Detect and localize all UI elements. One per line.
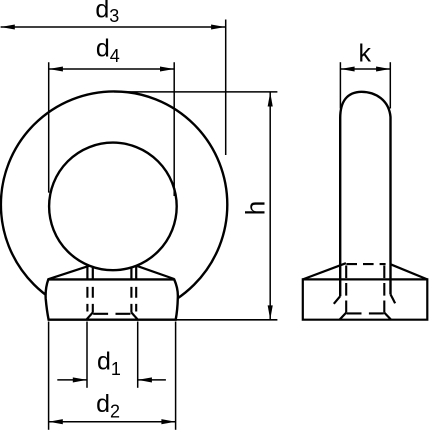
h arrow top <box>268 92 273 106</box>
boss vertical outer-left <box>86 265 88 280</box>
svg-text:k: k <box>359 39 372 67</box>
side view hidden horizontal top <box>346 263 385 265</box>
d4 arrow left <box>49 66 63 71</box>
dimension d3 line <box>1 26 226 28</box>
dimension h line <box>269 92 271 319</box>
boss vertical inner-left <box>92 266 94 279</box>
d4 extension line right <box>173 62 175 196</box>
thread chamfer left <box>86 313 93 320</box>
dimension k line <box>340 68 390 70</box>
h arrow bottom <box>268 305 273 319</box>
side view thread chamfer left <box>340 313 347 320</box>
d1 extension line left <box>86 322 88 388</box>
base body (front view, white fill over ring) <box>46 279 178 319</box>
d2 arrow left <box>49 419 63 424</box>
dimension d1 tail right <box>138 379 166 381</box>
side view hidden thread line right <box>383 266 385 313</box>
side view hidden thread line left <box>345 266 347 313</box>
side view flare right <box>391 294 396 303</box>
d1 arrow left (outside pointing right) <box>73 377 87 382</box>
hidden thread line outer-right <box>135 287 137 312</box>
k arrow right <box>376 66 390 71</box>
svg-text:h: h <box>241 201 271 216</box>
d1 extension line right <box>137 322 139 388</box>
cone silhouette diagonal left <box>48 266 89 279</box>
dimension d1 tail left <box>57 379 87 381</box>
side view cone slope right <box>391 264 428 279</box>
side view base rectangle <box>303 279 428 319</box>
d3 extension line <box>225 20 227 156</box>
k arrow left <box>340 66 354 71</box>
hidden hole bottom line <box>93 313 131 315</box>
k extension line left <box>339 62 341 108</box>
hidden thread line inner-right <box>130 287 132 313</box>
hidden thread line outer-left <box>86 287 88 312</box>
top tangent line <box>114 91 277 93</box>
side view thread chamfer right <box>384 313 391 320</box>
side view cone slope left <box>303 263 346 279</box>
side view flare left <box>334 296 340 304</box>
baseline under base extending right <box>176 319 278 321</box>
d4 arrow right <box>160 66 174 71</box>
boss vertical inner-right <box>130 267 132 280</box>
d3 arrow right <box>211 24 225 29</box>
d2 extension line right <box>175 322 177 430</box>
d1 arrow right (outside pointing left) <box>138 377 152 382</box>
eye nut front view: inner ring hole circle <box>49 143 177 271</box>
dimension d4 line <box>49 68 175 70</box>
cone silhouette diagonal right <box>136 266 174 279</box>
eye nut front view: outer ring circle <box>1 91 227 317</box>
d4 extension line left <box>48 62 50 192</box>
d2 arrow right <box>161 419 175 424</box>
boss vertical outer-right <box>135 266 137 280</box>
k extension line right <box>389 62 391 108</box>
d3 arrow left <box>1 24 15 29</box>
side view hidden hole bottom <box>347 312 384 314</box>
d2 extension line left <box>48 322 50 430</box>
dimension d2 line <box>49 421 176 423</box>
thread chamfer right <box>131 313 138 320</box>
side view ring profile (dome and sides) <box>340 92 390 296</box>
hidden thread line inner-left <box>92 287 94 313</box>
